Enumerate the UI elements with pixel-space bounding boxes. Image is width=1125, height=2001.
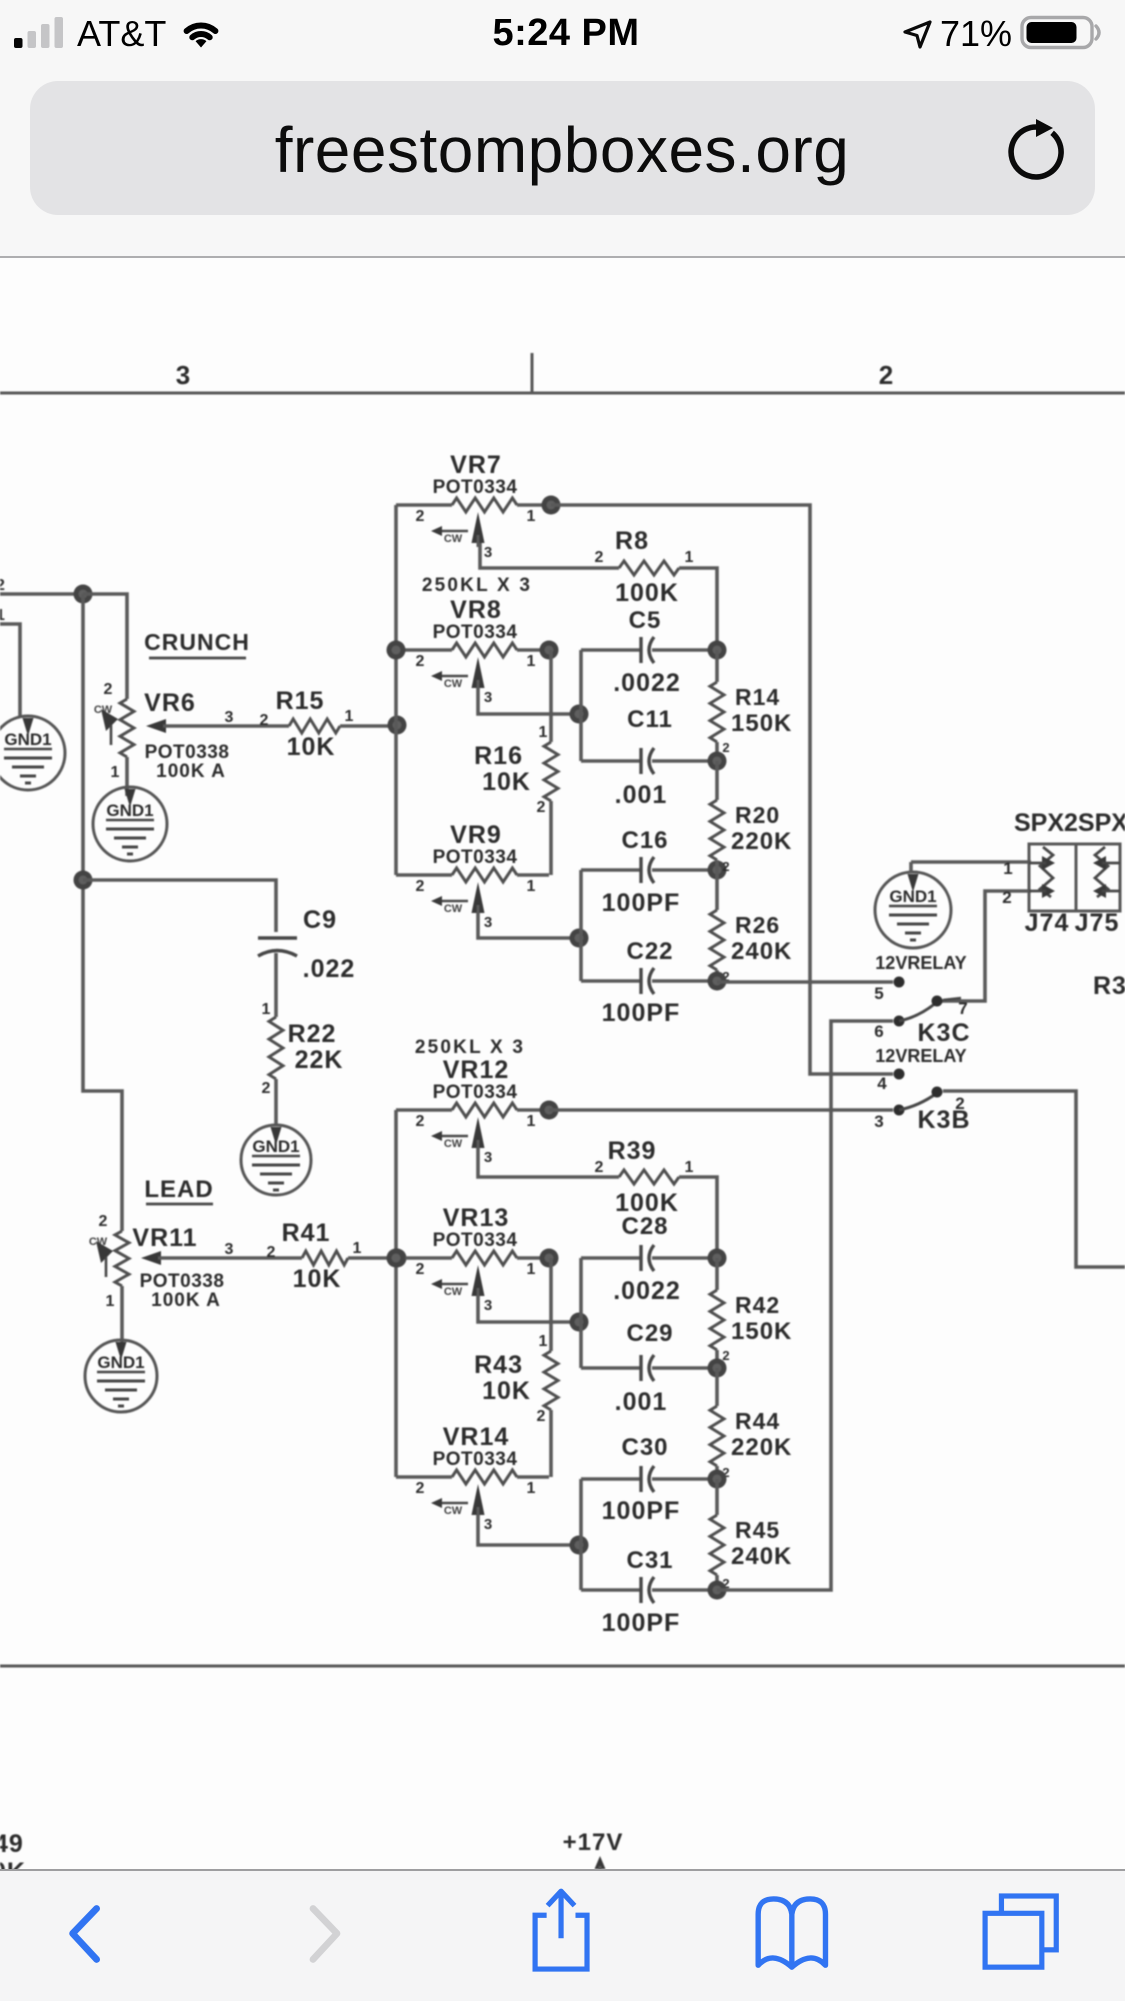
svg-text:VR8: VR8 (450, 596, 502, 624)
power rail +17V (563, 1829, 624, 1870)
svg-text:100PF: 100PF (602, 1609, 681, 1637)
svg-text:R26: R26 (735, 912, 780, 938)
label CRUNCH (144, 629, 250, 658)
svg-text:100PF: 100PF (602, 1497, 681, 1525)
resistor R39 100K (595, 1137, 694, 1217)
svg-text:3: 3 (484, 914, 492, 931)
svg-text:100PF: 100PF (602, 999, 681, 1027)
svg-text:R45: R45 (735, 1517, 780, 1543)
svg-text:POT0338: POT0338 (140, 1271, 225, 1292)
svg-text:.0022: .0022 (613, 669, 681, 697)
wire: C31 node to relay K3C pin 6 (717, 1021, 893, 1590)
wire: R41 pin 1 to VR13 rail (348, 1256, 397, 1260)
svg-text:C29: C29 (626, 1320, 673, 1347)
svg-text:10K: 10K (482, 1377, 531, 1405)
svg-text:1: 1 (111, 764, 120, 781)
wire: R8 pin 1 to C5/R14 node (679, 568, 717, 650)
wire: jack pin 2 to relay K3C pin 7 (941, 891, 1031, 1001)
resistor R43 10K (474, 1258, 558, 1477)
svg-text:3: 3 (484, 544, 492, 561)
svg-text:1: 1 (106, 1293, 115, 1310)
svg-text:R42: R42 (735, 1292, 780, 1318)
resistor R26 240K (710, 870, 792, 984)
svg-text:R41: R41 (282, 1219, 331, 1247)
svg-text:POT0334: POT0334 (433, 847, 518, 868)
wire: VR12 pin 1 rail to relay K3B pin 3 (549, 1108, 893, 1112)
svg-text:10K: 10K (287, 733, 336, 761)
wire: VR14 wiper to C30/C31 rail (478, 1515, 579, 1545)
junction C30 / R44 (708, 1470, 727, 1489)
svg-text:R15: R15 (276, 687, 325, 715)
wire: node A2 to C9 (83, 880, 276, 932)
svg-text:1: 1 (527, 1113, 536, 1130)
svg-text:2: 2 (595, 549, 604, 566)
svg-text:3: 3 (484, 1297, 492, 1314)
junction C11 / R14 / R20 (708, 752, 727, 771)
resistor R42 150K (710, 1258, 792, 1368)
svg-text:4: 4 (877, 1074, 887, 1093)
resistor R14 150K (710, 650, 792, 761)
svg-text:71%: 71% (940, 13, 1012, 54)
potentiometer VR7 POT0334 (396, 451, 549, 561)
svg-text:3: 3 (484, 1149, 492, 1166)
svg-text:R3: R3 (1093, 972, 1125, 1000)
relay contact K3C (874, 977, 970, 1048)
wire: VR12 wiper to R39 (478, 1148, 619, 1177)
capacitor C30 100PF (581, 1434, 717, 1525)
junction C31 / R45 (708, 1581, 727, 1600)
svg-text:12VRELAY: 12VRELAY (875, 1046, 966, 1066)
svg-text:220K: 220K (731, 828, 792, 855)
svg-text:1: 1 (353, 1240, 362, 1257)
svg-text:POT0334: POT0334 (433, 1082, 518, 1103)
svg-text:CRUNCH: CRUNCH (144, 629, 250, 655)
junction VR12 pin 1 (540, 1101, 559, 1120)
junction C5 / R14 (708, 641, 727, 660)
svg-text:VR11: VR11 (132, 1224, 197, 1252)
pin label 1 (off-sheet connector) (0, 607, 5, 624)
junction R41 / lower pot box rail (388, 1249, 407, 1268)
svg-text:CW: CW (444, 678, 463, 690)
wire: left rail node A down to VR11 (83, 594, 122, 1231)
junction VR13 pin 1 (540, 1249, 559, 1268)
svg-text:1: 1 (0, 607, 5, 624)
potentiometer VR14 POT0334 (396, 1423, 549, 1533)
junction C28 / R42 (708, 1249, 727, 1268)
svg-text:2: 2 (416, 878, 425, 895)
svg-text:CW: CW (444, 903, 463, 915)
svg-text:3: 3 (225, 709, 234, 726)
svg-text:C11: C11 (627, 706, 673, 733)
capacitor C29 .001 (581, 1320, 717, 1416)
svg-text:R8: R8 (615, 527, 649, 555)
svg-text:POT0334: POT0334 (433, 622, 518, 643)
svg-text:1: 1 (527, 508, 536, 525)
wire: VR13 wiper to C28/C29 rail (478, 1296, 579, 1322)
potentiometer VR9 POT0334 (396, 821, 549, 931)
value label 250KL X 3 (VR7-VR9) (422, 575, 532, 596)
resistor R20 220K (710, 761, 792, 874)
svg-text:2: 2 (416, 1113, 425, 1130)
wire: C16/C22 left rail (579, 870, 583, 981)
wire: C28/C29 left rail (579, 1258, 583, 1368)
svg-text:AT&T: AT&T (77, 13, 166, 54)
svg-text:VR7: VR7 (450, 451, 502, 479)
label R3 (off-sheet) (1093, 972, 1125, 1000)
svg-text:3: 3 (874, 1112, 883, 1131)
svg-text:.0022: .0022 (613, 1277, 681, 1305)
svg-text:10K: 10K (293, 1265, 342, 1293)
resistor R16 10K (474, 650, 558, 875)
capacitor C5 .0022 (581, 607, 717, 697)
wire: VR7 pin1 rail to relay K3B pin 4 (551, 505, 893, 1074)
svg-text:POT0334: POT0334 (433, 477, 518, 498)
svg-text:1: 1 (527, 653, 536, 670)
svg-text:1: 1 (539, 1333, 548, 1350)
wire: R39 pin 1 to C28/R42 node (679, 1177, 717, 1258)
svg-text:K3B: K3B (917, 1106, 970, 1134)
svg-text:2: 2 (722, 1348, 729, 1363)
svg-text:.001: .001 (615, 781, 668, 809)
jack SPX2SPX J74 / J75 (1002, 809, 1125, 937)
svg-text:K3C: K3C (917, 1019, 970, 1047)
svg-text:VR14: VR14 (443, 1423, 510, 1451)
junction C16 / R20 / R26 (708, 861, 727, 880)
svg-text:240K: 240K (731, 1543, 792, 1570)
junction C30/C31 left rail (570, 1536, 589, 1555)
svg-text:J75: J75 (1075, 909, 1120, 937)
svg-text:3: 3 (225, 1241, 234, 1258)
wire: lead pot box left rail (VR12-VR14) (394, 1110, 398, 1477)
svg-text:2: 2 (879, 360, 893, 390)
label 12VRELAY (K3B) (875, 1046, 966, 1066)
wire: C30/C31 left rail (579, 1479, 583, 1590)
resistor R44 220K (710, 1368, 792, 1480)
potentiometer VR8 POT0334 (396, 596, 549, 706)
svg-text:2: 2 (722, 740, 729, 755)
svg-text:3: 3 (484, 689, 492, 706)
svg-text:2: 2 (99, 1213, 108, 1230)
svg-text:freestompboxes.org: freestompboxes.org (275, 114, 850, 186)
svg-text:6: 6 (874, 1022, 883, 1041)
junction C16/C22 left rail (570, 929, 589, 948)
junction VR8 pin 1 (540, 641, 559, 660)
svg-text:2: 2 (104, 681, 113, 698)
junction R15 / pot box left rail (388, 716, 407, 735)
svg-text:2: 2 (260, 712, 269, 729)
label LEAD (144, 1176, 213, 1204)
potentiometer VR11 POT0338 100K A (89, 1213, 302, 1311)
svg-text:.001: .001 (615, 1388, 668, 1416)
svg-text:C30: C30 (621, 1434, 668, 1461)
svg-text:2: 2 (267, 1244, 276, 1261)
svg-text:3: 3 (484, 1516, 492, 1533)
junction VR13 pin 2 (387, 1249, 406, 1268)
junction node A2 (tap to C9) (74, 871, 93, 890)
svg-text:C31: C31 (626, 1547, 673, 1574)
wire: tone pot box left rail (VR7-VR9) (394, 505, 398, 875)
wire: R15 pin 1 to VR8 rail (340, 724, 397, 728)
svg-text:3: 3 (176, 360, 190, 390)
svg-text:1: 1 (527, 878, 536, 895)
svg-text:250KL X 3: 250KL X 3 (422, 575, 532, 596)
svg-text:+17V: +17V (563, 1829, 624, 1856)
svg-text:C28: C28 (621, 1213, 668, 1240)
svg-text:2: 2 (262, 1080, 271, 1097)
ground GND1 (input, left edge) (0, 716, 65, 790)
ground GND1 (below VR6) (93, 787, 167, 861)
wire: off-sheet pin 1 to GND1 (0, 624, 20, 718)
svg-text:7: 7 (958, 999, 967, 1018)
label 49 (cut off, sheet edge) (0, 1830, 24, 1858)
svg-text:2: 2 (537, 1408, 546, 1425)
potentiometer VR12 POT0334 (396, 1056, 549, 1166)
resistor R8 100K (595, 527, 694, 607)
svg-text:LEAD: LEAD (144, 1176, 213, 1203)
svg-text:R39: R39 (608, 1137, 657, 1165)
wire: K3B pin 2 to off-sheet right (943, 1091, 1125, 1267)
svg-text:100PF: 100PF (602, 889, 681, 917)
junction VR8 pin 2 (387, 641, 406, 660)
ground GND1 (below VR11) (85, 1340, 157, 1412)
svg-text:2: 2 (416, 1480, 425, 1497)
relay contact K3B (874, 1069, 970, 1135)
svg-text:1: 1 (345, 708, 354, 725)
junction C5/C11 left rail (570, 705, 589, 724)
svg-text:CW: CW (444, 1286, 463, 1298)
svg-text:R16: R16 (474, 742, 523, 770)
wire: VR6 pin 1 to ground (125, 757, 129, 796)
svg-text:2: 2 (1002, 888, 1011, 907)
resistor R45 240K (710, 1479, 792, 1591)
wire: VR11 pin 1 to ground (120, 1286, 124, 1348)
svg-text:2: 2 (722, 859, 729, 874)
svg-text:2: 2 (416, 1261, 425, 1278)
svg-text:C5: C5 (629, 607, 662, 634)
svg-text:49: 49 (0, 1830, 24, 1858)
svg-text:CW: CW (444, 1505, 463, 1517)
svg-text:1: 1 (539, 724, 548, 741)
wire: VR8 wiper to C5/C11 rail (478, 688, 579, 714)
wire: VR7 wiper to R8 (480, 543, 619, 568)
svg-text:R22: R22 (288, 1020, 337, 1048)
svg-text:1: 1 (527, 1261, 536, 1278)
svg-text:5: 5 (874, 984, 883, 1003)
wire: node A to VR6 pin 2 (83, 594, 127, 699)
wire: VR9 wiper to C16/C22 rail (478, 913, 579, 938)
pin label 2 (off-sheet connector) (0, 577, 5, 594)
svg-text:100K: 100K (615, 579, 679, 607)
svg-text:C16: C16 (621, 827, 668, 854)
svg-text:1: 1 (1003, 859, 1012, 878)
junction node A (74, 585, 93, 604)
capacitor C16 100PF (581, 827, 717, 917)
svg-text:2: 2 (0, 577, 5, 594)
resistor R41 10K (225, 1219, 362, 1293)
ground GND1 (relay common) (875, 862, 951, 948)
svg-text:12VRELAY: 12VRELAY (875, 953, 966, 973)
svg-text:22K: 22K (295, 1046, 344, 1074)
wire: GND1 to jack J74 pin 1 (911, 860, 1031, 864)
svg-text:250KL X 3: 250KL X 3 (415, 1037, 525, 1058)
svg-text:POT0334: POT0334 (433, 1230, 518, 1251)
svg-text:R14: R14 (735, 684, 780, 710)
potentiometer VR6 POT0338 100K A (94, 681, 289, 782)
svg-text:1: 1 (527, 1480, 536, 1497)
svg-text:POT0334: POT0334 (433, 1449, 518, 1470)
capacitor C28 .0022 (581, 1213, 717, 1305)
svg-text:VR6: VR6 (144, 689, 196, 717)
capacitor C9 .022 (258, 906, 355, 1017)
svg-text:C22: C22 (626, 938, 673, 965)
svg-text:C9: C9 (303, 906, 337, 934)
capacitor C11 .001 (581, 706, 717, 809)
svg-text:10K: 10K (482, 768, 531, 796)
capacitor C22 100PF (581, 938, 717, 1027)
svg-text:R44: R44 (735, 1408, 780, 1434)
wire: C22 node to relay K3C pin 5 (717, 980, 893, 984)
svg-text:1: 1 (685, 1159, 694, 1176)
svg-text:220K: 220K (731, 1434, 792, 1461)
resistor R15 10K (225, 687, 354, 761)
svg-text:CW: CW (444, 533, 463, 545)
capacitor C31 100PF (581, 1547, 717, 1637)
svg-text:100K A: 100K A (151, 1290, 221, 1311)
junction C29 / R42 / R44 (708, 1359, 727, 1378)
label 12VRELAY (K3C) (875, 953, 966, 973)
svg-text:2: 2 (537, 799, 546, 816)
svg-text:CW: CW (444, 1138, 463, 1150)
svg-text:VR12: VR12 (443, 1056, 510, 1084)
svg-text:1: 1 (262, 1001, 271, 1018)
svg-text:100K A: 100K A (156, 761, 226, 782)
value label 250KL X 3 (VR12-VR14) (415, 1037, 525, 1058)
wire: input net from sheet edge to node A (0, 592, 83, 596)
junction VR7 pin 1 (542, 496, 561, 515)
svg-text:R20: R20 (735, 802, 780, 828)
svg-text:.022: .022 (303, 955, 356, 983)
svg-text:SPX2SPX2: SPX2SPX2 (1014, 809, 1125, 837)
svg-text:1: 1 (685, 549, 694, 566)
resistor R22 22K (262, 1001, 344, 1124)
potentiometer VR13 POT0334 (396, 1204, 549, 1314)
svg-text:2: 2 (416, 653, 425, 670)
svg-text:150K: 150K (731, 710, 792, 737)
svg-text:VR9: VR9 (450, 821, 502, 849)
svg-text:2: 2 (416, 508, 425, 525)
svg-text:VR13: VR13 (443, 1204, 510, 1232)
svg-text:5:24 PM: 5:24 PM (492, 12, 639, 54)
svg-text:2: 2 (595, 1159, 604, 1176)
svg-text:R43: R43 (474, 1351, 523, 1379)
junction C22 / R26 (708, 972, 727, 991)
junction C28/C29 left rail (570, 1313, 589, 1332)
ground GND1 (below R22) (241, 1125, 311, 1195)
svg-text:J74: J74 (1025, 909, 1070, 937)
label 0K (cut off, sheet edge) (0, 1858, 26, 1886)
wire: C5/C11 left rail (579, 650, 583, 761)
svg-text:240K: 240K (731, 938, 792, 965)
svg-text:POT0338: POT0338 (145, 742, 230, 763)
svg-text:150K: 150K (731, 1318, 792, 1345)
